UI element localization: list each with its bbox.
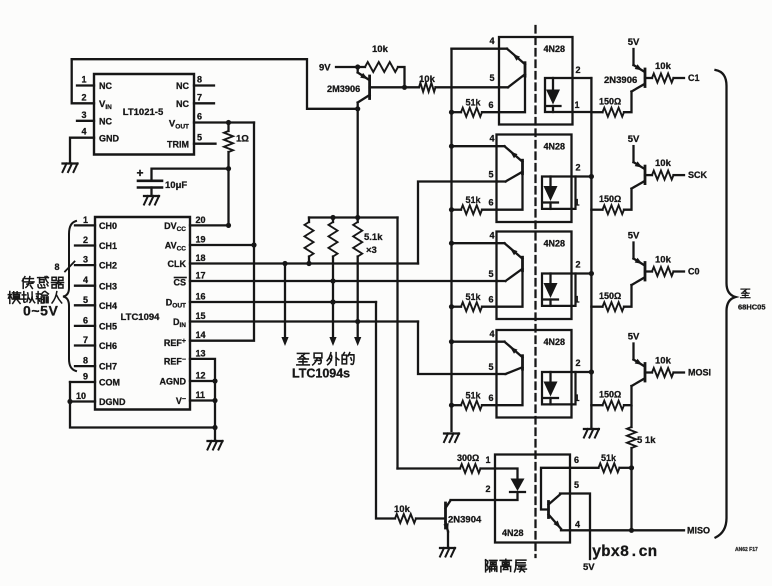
svg-text:5 1k: 5 1k xyxy=(637,435,656,446)
svg-text:5: 5 xyxy=(83,295,88,305)
svg-text:5V: 5V xyxy=(583,562,595,573)
svg-text:2N3906: 2N3906 xyxy=(604,75,637,86)
svg-text:1: 1 xyxy=(574,100,579,110)
svg-text:1: 1 xyxy=(574,295,579,305)
svg-text:COM: COM xyxy=(99,378,120,388)
svg-text:150Ω: 150Ω xyxy=(599,390,621,400)
svg-text:6: 6 xyxy=(488,295,493,305)
svg-text:11: 11 xyxy=(196,390,206,400)
svg-text:5.1k: 5.1k xyxy=(364,232,383,243)
svg-text:CS: CS xyxy=(173,278,186,288)
svg-text:MOSI: MOSI xyxy=(688,367,711,377)
svg-text:10k: 10k xyxy=(655,356,672,367)
svg-text:C1: C1 xyxy=(688,73,700,83)
svg-text:2: 2 xyxy=(575,358,580,368)
svg-text:51k: 51k xyxy=(465,195,481,205)
svg-text:4N28: 4N28 xyxy=(544,239,566,249)
svg-text:19: 19 xyxy=(196,235,206,245)
svg-text:1Ω: 1Ω xyxy=(236,134,249,145)
svg-text:10k: 10k xyxy=(655,255,672,266)
svg-text:SCK: SCK xyxy=(688,170,708,180)
svg-text:150Ω: 150Ω xyxy=(599,97,621,107)
svg-text:NC: NC xyxy=(176,99,189,109)
svg-text:2: 2 xyxy=(81,92,86,102)
svg-text:6: 6 xyxy=(574,455,579,465)
svg-text:2: 2 xyxy=(575,65,580,75)
svg-text:6: 6 xyxy=(488,393,493,403)
svg-text:LTC1094s: LTC1094s xyxy=(292,367,350,381)
svg-text:1: 1 xyxy=(574,198,579,208)
svg-text:5: 5 xyxy=(197,133,202,143)
svg-text:NC: NC xyxy=(99,117,112,127)
svg-text:300Ω: 300Ω xyxy=(457,453,479,463)
svg-text:0~5V: 0~5V xyxy=(23,303,59,319)
svg-text:4: 4 xyxy=(489,134,494,144)
svg-text:1: 1 xyxy=(81,75,86,85)
svg-text:10k: 10k xyxy=(655,61,672,72)
svg-text:10: 10 xyxy=(76,391,86,401)
svg-text:LT1021-5: LT1021-5 xyxy=(123,107,164,118)
svg-text:CH4: CH4 xyxy=(99,301,117,311)
svg-text:6: 6 xyxy=(488,100,493,110)
svg-text:6: 6 xyxy=(197,112,202,122)
svg-text:5: 5 xyxy=(574,480,579,490)
svg-text:3: 3 xyxy=(81,110,86,120)
svg-text:+: + xyxy=(137,166,144,180)
svg-text:7: 7 xyxy=(83,335,88,345)
svg-text:2: 2 xyxy=(485,484,490,494)
svg-text:TRIM: TRIM xyxy=(167,139,189,149)
svg-text:9V: 9V xyxy=(319,63,331,74)
svg-text:CLK: CLK xyxy=(168,259,187,269)
svg-text:ybx8.cn: ybx8.cn xyxy=(592,543,657,561)
svg-text:10k: 10k xyxy=(655,158,672,169)
svg-text:14: 14 xyxy=(196,330,206,340)
svg-text:AN62 F17: AN62 F17 xyxy=(735,547,758,553)
svg-text:CH3: CH3 xyxy=(99,281,117,291)
svg-text:51k: 51k xyxy=(465,292,481,302)
svg-text:2: 2 xyxy=(575,163,580,173)
svg-text:8: 8 xyxy=(83,356,88,366)
svg-text:150Ω: 150Ω xyxy=(599,291,621,301)
svg-text:1: 1 xyxy=(485,455,490,465)
svg-text:4: 4 xyxy=(489,36,494,46)
svg-text:4: 4 xyxy=(81,127,86,137)
svg-text:17: 17 xyxy=(196,271,206,281)
svg-text:5V: 5V xyxy=(628,134,640,145)
svg-text:AGND: AGND xyxy=(160,377,187,387)
svg-text:68HC05: 68HC05 xyxy=(738,303,766,312)
svg-text:10μF: 10μF xyxy=(165,180,187,191)
svg-text:CH1: CH1 xyxy=(99,241,117,251)
svg-text:5V: 5V xyxy=(628,231,640,242)
svg-text:LTC1094: LTC1094 xyxy=(121,312,161,323)
svg-text:6: 6 xyxy=(83,315,88,325)
svg-text:51k: 51k xyxy=(465,391,481,401)
svg-text:10k: 10k xyxy=(394,504,411,515)
svg-text:4N28: 4N28 xyxy=(502,528,524,538)
svg-text:51k: 51k xyxy=(465,98,481,108)
svg-text:2M3906: 2M3906 xyxy=(327,84,360,94)
svg-text:4: 4 xyxy=(575,520,580,530)
svg-text:18: 18 xyxy=(196,253,206,263)
svg-text:4N28: 4N28 xyxy=(544,337,566,347)
svg-text:5: 5 xyxy=(489,73,494,83)
svg-text:GND: GND xyxy=(99,134,120,144)
svg-text:4: 4 xyxy=(489,329,494,339)
svg-text:C0: C0 xyxy=(688,266,700,276)
svg-text:8: 8 xyxy=(54,262,59,272)
svg-text:4N28: 4N28 xyxy=(544,44,566,54)
svg-text:10k: 10k xyxy=(419,74,436,85)
svg-text:5V: 5V xyxy=(628,37,640,48)
svg-text:3: 3 xyxy=(83,255,88,265)
svg-text:CH0: CH0 xyxy=(99,221,117,231)
svg-text:2N3904: 2N3904 xyxy=(448,515,482,526)
svg-text:4: 4 xyxy=(489,231,494,241)
svg-text:2: 2 xyxy=(83,235,88,245)
svg-text:5: 5 xyxy=(488,269,493,279)
svg-text:4N28: 4N28 xyxy=(544,142,566,152)
svg-text:5V: 5V xyxy=(628,332,640,343)
svg-text:DGND: DGND xyxy=(99,397,126,407)
svg-text:×3: ×3 xyxy=(366,245,377,256)
svg-text:20: 20 xyxy=(196,215,206,225)
svg-text:CH5: CH5 xyxy=(99,322,117,332)
svg-text:9: 9 xyxy=(83,372,88,382)
svg-text:CH7: CH7 xyxy=(99,362,117,372)
svg-text:51k: 51k xyxy=(601,453,617,463)
svg-text:16: 16 xyxy=(196,292,206,302)
svg-text:2: 2 xyxy=(575,260,580,270)
svg-text:7: 7 xyxy=(197,92,202,102)
svg-text:NC: NC xyxy=(176,81,189,91)
svg-text:4: 4 xyxy=(83,275,88,285)
svg-text:8: 8 xyxy=(197,75,202,85)
svg-text:5: 5 xyxy=(488,362,493,372)
svg-text:6: 6 xyxy=(488,198,493,208)
svg-text:CH2: CH2 xyxy=(99,261,117,271)
svg-text:15: 15 xyxy=(196,311,206,321)
svg-text:150Ω: 150Ω xyxy=(599,194,621,204)
svg-text:5: 5 xyxy=(488,170,493,180)
svg-text:10k: 10k xyxy=(372,44,389,55)
svg-text:NC: NC xyxy=(99,81,112,91)
svg-text:12: 12 xyxy=(196,371,206,381)
svg-text:1: 1 xyxy=(83,215,88,225)
svg-text:13: 13 xyxy=(196,348,206,358)
svg-text:CH6: CH6 xyxy=(99,341,117,351)
svg-text:1: 1 xyxy=(574,393,579,403)
svg-text:MISO: MISO xyxy=(687,525,710,535)
